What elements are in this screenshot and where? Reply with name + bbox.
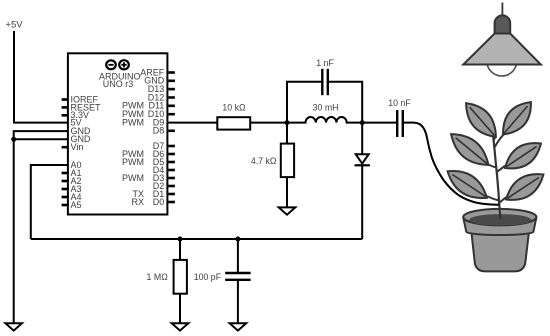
leaf top-left	[466, 103, 496, 137]
arduino logo	[106, 60, 129, 69]
diode D1	[355, 154, 370, 165]
svg-text:D0: D0	[153, 197, 165, 207]
inductor L1 30 mH	[287, 117, 362, 123]
wire A0 to bottom bus	[31, 165, 68, 239]
pin D3 (right)	[122, 173, 175, 183]
plant pot rim band	[463, 217, 536, 235]
svg-text:D8: D8	[153, 126, 165, 136]
junction dot bus C2	[235, 237, 240, 242]
capacitor C1 1 nF	[322, 69, 328, 95]
pin A4 (left)	[62, 192, 82, 202]
svg-text:10 nF: 10 nF	[388, 98, 411, 108]
capacitor C3 10 nF	[397, 110, 403, 137]
wire node B to C3	[362, 122, 397, 124]
resistor R2 4.7 kΩ	[281, 144, 294, 178]
leaf low-left	[448, 171, 487, 198]
plant pot soil	[469, 214, 531, 225]
pin RESET (left)	[62, 102, 101, 112]
wire D9 to R1	[168, 122, 216, 124]
pin A3 (left)	[62, 184, 82, 194]
pin D11 (right)	[122, 101, 175, 111]
pin GND (right)	[144, 76, 175, 86]
wire node A to R2	[286, 123, 288, 144]
resistor R1 10 kΩ	[217, 117, 250, 129]
ground symbol left rail	[5, 323, 22, 330]
svg-text:100 pF: 100 pF	[194, 272, 222, 282]
wire C2 to ground	[237, 280, 239, 324]
svg-text:1 MΩ: 1 MΩ	[147, 272, 169, 282]
pin 3.3V (left)	[62, 110, 89, 120]
pin D12 (right)	[148, 92, 175, 102]
svg-text:Vin: Vin	[71, 142, 84, 152]
pin D2 (right)	[153, 181, 175, 191]
svg-text:UNO r3: UNO r3	[103, 79, 134, 89]
node B junction	[360, 120, 365, 125]
junction dot bus R3	[178, 237, 183, 242]
pin D1 (right)	[132, 189, 174, 199]
pin IOREF (left)	[62, 94, 99, 104]
pin D0 (right)	[131, 197, 174, 207]
pin 5V (left)	[71, 118, 82, 128]
wire top branch right	[328, 82, 362, 123]
plant stem	[493, 131, 501, 219]
wire node B to D1	[361, 123, 363, 155]
plant pot body	[472, 233, 529, 271]
arduino U1 body	[68, 53, 167, 214]
resistor R3 1 MΩ	[174, 260, 187, 294]
svg-text:RX: RX	[131, 197, 144, 207]
pin D6 (right)	[122, 149, 175, 159]
wire C3 to plant stem	[414, 123, 499, 205]
pin D13 (right)	[148, 84, 175, 94]
lamp bulb	[487, 46, 517, 76]
wire diode to bus	[361, 165, 363, 239]
ground symbol R3	[172, 323, 189, 330]
svg-text:30 mH: 30 mH	[313, 103, 339, 113]
wire R1 to node A	[250, 122, 287, 124]
pin D10 (right)	[122, 109, 175, 119]
pin D4 (right)	[153, 165, 175, 175]
wire R3 to ground	[179, 294, 181, 324]
leaf mid-left	[451, 134, 488, 165]
leaf branch stems	[487, 134, 506, 202]
pin GND 2 (left)	[71, 134, 92, 144]
lamp socket	[495, 15, 511, 33]
pin D9 (right)	[122, 118, 164, 128]
pin AREF (right)	[140, 67, 175, 77]
wire GND pin 2	[14, 138, 68, 140]
wire +5V to 5V pin	[14, 31, 68, 123]
pin GND (left)	[71, 126, 92, 136]
ground symbol R2	[279, 207, 296, 214]
wire C3 toward plant (start)	[403, 122, 414, 124]
wire bus to R3	[179, 239, 181, 260]
pin A0 (left)	[71, 160, 82, 170]
svg-text:10 kΩ: 10 kΩ	[222, 103, 246, 113]
capacitor C2 100 pF	[225, 273, 250, 280]
wire top branch left	[287, 82, 322, 123]
pin D7 (right)	[153, 141, 175, 151]
wire R2 to ground	[286, 177, 288, 207]
svg-text:A5: A5	[71, 200, 82, 210]
pin A2 (left)	[62, 176, 82, 186]
junction dot GND rail	[11, 137, 16, 142]
svg-text:PWM: PWM	[122, 173, 144, 183]
wire GND pin 1 to ground rail	[14, 131, 68, 323]
svg-text:1 nF: 1 nF	[316, 58, 334, 68]
leaf low-right	[506, 174, 543, 200]
pin D8 (right)	[153, 126, 175, 136]
node A junction	[285, 120, 290, 125]
pin D5 (right)	[122, 157, 175, 167]
pin Vin (left)	[62, 142, 84, 152]
svg-text:+5V: +5V	[5, 20, 23, 31]
svg-text:4.7 kΩ: 4.7 kΩ	[251, 156, 277, 166]
leaf top-right	[503, 102, 531, 134]
wire bus to C2	[237, 239, 239, 273]
lamp shade	[463, 34, 541, 65]
svg-text:PWM: PWM	[122, 157, 144, 167]
plant pot opening ellipse	[463, 209, 536, 225]
bottom bus wire	[31, 238, 362, 240]
leaf mid-right	[505, 143, 541, 168]
pin A1 (left)	[62, 168, 82, 178]
lamp cord	[501, 3, 503, 17]
svg-text:PWM: PWM	[122, 118, 144, 128]
ground symbol C2	[230, 323, 247, 330]
pin A5 (left)	[62, 200, 82, 210]
